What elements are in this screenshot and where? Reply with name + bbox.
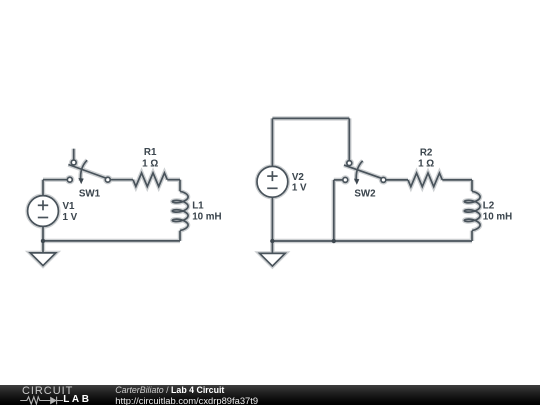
footer bar xyxy=(0,385,540,405)
footer title text xyxy=(115,386,224,395)
CircuitLab logo xyxy=(0,385,110,405)
footer url text xyxy=(115,396,258,405)
